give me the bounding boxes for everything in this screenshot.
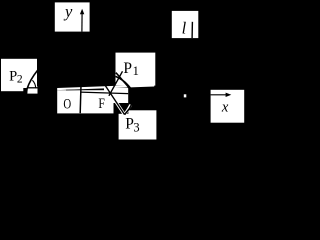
l label box	[172, 11, 199, 38]
directrix line in l box	[191, 22, 193, 38]
segment F-P3	[105, 85, 125, 115]
svg-text:l: l	[182, 19, 187, 38]
y-axis arrow in y box	[81, 11, 83, 32]
white halo along F-P3	[110, 93, 124, 115]
P2 tab	[27, 86, 37, 93]
P2 label box	[1, 59, 37, 88]
svg-text:O: O	[63, 95, 71, 112]
black notch over band corner right of F	[114, 103, 129, 114]
svg-text:P: P	[123, 60, 132, 77]
P3 label box	[119, 110, 157, 139]
x-axis arrow in x box	[211, 94, 230, 96]
svg-text:1: 1	[133, 64, 139, 78]
svg-text:x: x	[221, 100, 229, 116]
segment F-P1	[109, 71, 123, 96]
seam slit between strip A and band	[66, 89, 100, 92]
P2 horizontal segment	[28, 87, 40, 89]
x-axis line C from O to band edge	[80, 92, 128, 93]
P2 skirt strip	[1, 86, 23, 91]
svg-text:y: y	[63, 2, 73, 21]
arc near P1 (angle arc)	[116, 76, 131, 88]
svg-text:F: F	[98, 95, 105, 112]
O F band left part	[57, 90, 104, 113]
white fleck near x-axis	[184, 94, 187, 97]
svg-text:2: 2	[17, 73, 23, 85]
O F band right part	[104, 88, 128, 113]
strip A (x-axis halo, slanted)	[57, 84, 154, 90]
svg-text:3: 3	[133, 120, 139, 134]
y-axis	[79, 85, 82, 113]
parabola right branch through P1 vertex P3	[116, 73, 134, 115]
x label box	[211, 90, 245, 123]
y label box	[55, 2, 90, 31]
P2 parabola curve	[26, 70, 37, 94]
P1 label box	[116, 53, 156, 86]
white halo along parabola lower arc	[125, 105, 131, 115]
P2 angle arc	[32, 80, 35, 87]
